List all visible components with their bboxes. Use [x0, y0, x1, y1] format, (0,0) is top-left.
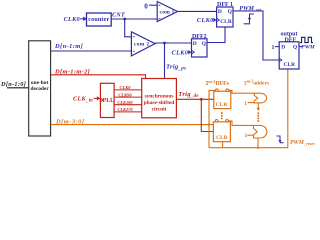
wire DFF bank2 bottom stub — [222, 142, 224, 148]
wire output DFF Q to PWM — [299, 46, 303, 48]
svg-text:circuit: circuit — [152, 107, 167, 113]
DFF bank box 2 — [213, 120, 230, 142]
output DFF box — [279, 42, 299, 69]
svg-text:PLL: PLL — [103, 98, 114, 104]
counter box — [87, 13, 112, 26]
svg-text:Q: Q — [202, 41, 207, 47]
svg-text:PWM_set: PWM_set — [239, 6, 261, 12]
synchronous phase-shifted circuit box — [142, 79, 177, 118]
wire com2 output to DFF2 D — [155, 42, 192, 44]
symbol rising edge — [244, 14, 254, 24]
dotted repetition marks (DFF column) — [221, 112, 223, 119]
wire DFF1 Q to output DFF clock (PWM_set net) — [233, 11, 279, 60]
svg-text:Q: Q — [228, 9, 233, 15]
svg-text:D[n-1:0]: D[n-1:0] — [0, 81, 26, 88]
wire adder1 output down arrow — [257, 103, 261, 111]
wire DFF1 bank Q to adder1 — [228, 90, 254, 93]
svg-text:CLR: CLR — [220, 19, 233, 25]
svg-text:CLK270: CLK270 — [117, 107, 133, 112]
svg-text:CLK90: CLK90 — [118, 92, 132, 97]
node Trig_ps junction — [163, 42, 166, 45]
wire CLK0 to counter with arrowhead — [80, 17, 87, 21]
svg-text:D: D — [193, 41, 197, 47]
wire 0 to com1 top input — [149, 4, 158, 6]
wire D[n-1:m] decoder to com2 — [51, 50, 132, 52]
svg-text:com 1: com 1 — [160, 9, 175, 15]
svg-text:0: 0 — [144, 2, 148, 10]
wire 1 dash to D — [275, 46, 279, 48]
svg-text:synchronous: synchronous — [145, 94, 174, 100]
wire DFF2 Q up to DFF1 CLR — [207, 27, 225, 43]
svg-text:CLK0: CLK0 — [64, 16, 80, 23]
PLL box — [100, 83, 114, 117]
svg-text:decoder: decoder — [30, 86, 49, 92]
adder 1 — [254, 93, 266, 103]
svg-text:CLK0: CLK0 — [172, 49, 189, 56]
svg-text:D: D — [218, 9, 222, 15]
wire Trig_de down to DFF bank 2 — [201, 99, 213, 131]
svg-text:1: 1 — [272, 45, 275, 51]
wire PWM_reset rail to output DFF CLR — [209, 69, 288, 148]
svg-text:CNT: CNT — [112, 13, 125, 19]
wire D[n-1:0] into decoder — [7, 87, 29, 89]
wire CLK180 PLL to sync box — [114, 104, 142, 106]
wire CNT down to com2 top input — [125, 19, 132, 37]
svg-text:PWM: PWM — [301, 44, 315, 50]
wire CLK270 PLL to sync box — [114, 111, 142, 113]
dotted repetition marks (adder column) — [257, 112, 259, 122]
wire CLK0 arrow into DFF2 — [188, 50, 191, 54]
wire CLK0 PLL to sync box — [114, 89, 142, 91]
svg-text:DFF: DFF — [284, 38, 296, 44]
symbol falling edge — [277, 136, 284, 143]
svg-text:CLK0: CLK0 — [119, 85, 131, 90]
wire 1 to adder1 — [248, 102, 255, 104]
svg-text:1: 1 — [244, 101, 247, 107]
svg-text:Q: Q — [293, 45, 298, 51]
svg-text:PWM_reset: PWM_reset — [290, 140, 315, 146]
svg-text:counter: counter — [88, 17, 109, 23]
wire 1 to adder2 — [247, 134, 253, 136]
comparator com 1 — [157, 2, 177, 22]
wire Trig_de sync box to DFF bank — [176, 98, 213, 100]
node Trig_de junction — [200, 98, 203, 101]
wire CLK0 arrow into DFF1 — [213, 18, 216, 22]
flip-flop DFF2 — [192, 34, 208, 57]
svg-text:CLK0: CLK0 — [197, 17, 214, 24]
svg-text:CLR: CLR — [283, 62, 296, 68]
flip-flop DFF 1 — [217, 2, 233, 27]
wire D[m-3:0] decoder to DFF bank — [51, 124, 214, 126]
svg-text:CLR: CLR — [216, 135, 229, 141]
wire CLK90 PLL to sync box — [114, 96, 142, 98]
svg-text:com 2: com 2 — [134, 42, 149, 48]
node D bus junction — [208, 123, 210, 125]
DFF bank box 1 — [214, 89, 231, 109]
wire Trig_ps down to sync circuit — [164, 43, 166, 79]
wire CLK_in arrow into PLL — [94, 96, 101, 100]
comparator com 2 — [131, 32, 155, 56]
svg-text:CLR: CLR — [216, 102, 229, 108]
symbol PWM square wave — [300, 37, 313, 42]
wire adder2 output to reset rail — [257, 138, 259, 148]
svg-text:1: 1 — [244, 133, 247, 139]
svg-text:CLK180: CLK180 — [117, 100, 133, 105]
adder 2 — [254, 125, 268, 138]
wire DFF2 bank Q to adder2 — [228, 121, 253, 126]
node CNT junction — [123, 18, 126, 21]
node reset rail junction — [257, 147, 259, 149]
svg-text:D[n-1:m]: D[n-1:m] — [54, 43, 83, 50]
wire D bus vertical down to pwm reset rail — [208, 125, 210, 148]
svg-text:D: D — [281, 45, 285, 51]
wire D bus vertical to upper DFF input — [209, 90, 216, 124]
label output DFF — [280, 32, 297, 44]
wire com1 output to DFF1 D — [178, 10, 217, 12]
wire CNT rail counter to com1 — [111, 18, 157, 20]
wire D[m-1:m-2] decoder to sync circuit — [51, 75, 146, 79]
svg-text:phase-shifted: phase-shifted — [144, 100, 175, 106]
one-hot decoder box — [29, 41, 51, 136]
